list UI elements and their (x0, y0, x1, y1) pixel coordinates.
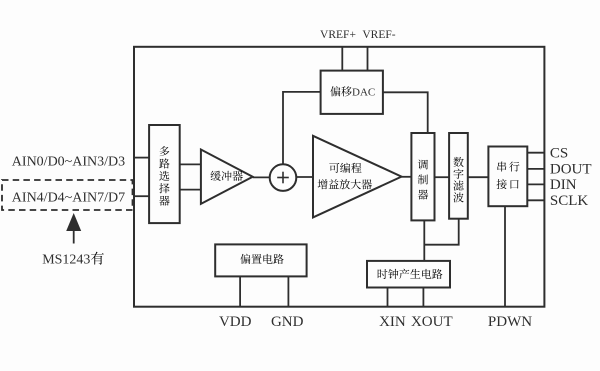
svg-text:VDD: VDD (219, 314, 252, 330)
svg-text:DAC: DAC (352, 87, 375, 99)
wire modulator/filter to clock generator (424, 219, 458, 261)
multiplexer box (多路选择器) (149, 125, 180, 223)
wire XOUT (422, 288, 424, 307)
svg-text:AIN0/D0~AIN3/D3: AIN0/D0~AIN3/D3 (12, 154, 125, 169)
serial interface box (串行接口) (488, 147, 527, 207)
wire XIN (387, 288, 389, 307)
wire DIN stub (527, 183, 544, 185)
svg-text:VREF-: VREF- (362, 29, 395, 41)
wire mux to buffer (lower) (180, 189, 201, 191)
wire modulator to digital filter (435, 176, 450, 178)
wire DAC input from modulator (383, 92, 428, 133)
offset DAC box (偏移DAC) (321, 71, 383, 114)
svg-text:CS: CS (550, 146, 568, 162)
wire filter to serial interface (468, 176, 489, 178)
svg-text:PDWN: PDWN (488, 314, 532, 330)
svg-text:AIN4/D4~AIN7/D7: AIN4/D4~AIN7/D7 (12, 191, 125, 206)
svg-text:DOUT: DOUT (550, 162, 592, 178)
svg-text:SCLK: SCLK (550, 193, 589, 209)
wire PGA to modulator (402, 176, 412, 178)
dashed box around AIN4-7 (2, 180, 133, 210)
svg-text:DIN: DIN (550, 177, 577, 193)
modulator box (调制器) (411, 133, 434, 220)
digital filter box (数字滤波) (449, 133, 468, 219)
PGA triangle (可编程增益放大器) (313, 136, 402, 218)
wire VREF- tick (367, 47, 369, 71)
wire GND (287, 276, 289, 306)
clock generator box (时钟产生电路) (367, 261, 450, 288)
wire AIN4-7 input stub (134, 195, 149, 197)
wire AIN0-3 input stub (134, 157, 149, 159)
bias circuit box (偏置电路) (215, 244, 306, 276)
wire DOUT stub (527, 168, 544, 170)
svg-text:GND: GND (271, 314, 304, 330)
wire VREF+ tick (341, 47, 343, 71)
svg-text:XOUT: XOUT (411, 314, 453, 330)
summing node circle (270, 164, 297, 191)
svg-text:VREF+: VREF+ (320, 29, 356, 41)
wire buffer to summer (253, 176, 270, 178)
wire mux to buffer (upper) (180, 163, 201, 165)
outer chip boundary box (134, 47, 544, 307)
buffer amp triangle (缓冲器) (201, 150, 253, 204)
annotation arrow pointing at dashed box (73, 230, 75, 244)
wire PDWN (504, 206, 506, 307)
wire DAC output to summer (283, 92, 321, 164)
wire SCLK stub (527, 199, 544, 201)
svg-text:XIN: XIN (379, 314, 406, 330)
wire CS stub (527, 152, 544, 154)
svg-text:MS1243: MS1243 (42, 253, 90, 268)
wire summer to PGA (296, 176, 313, 178)
wire VDD (239, 276, 241, 306)
